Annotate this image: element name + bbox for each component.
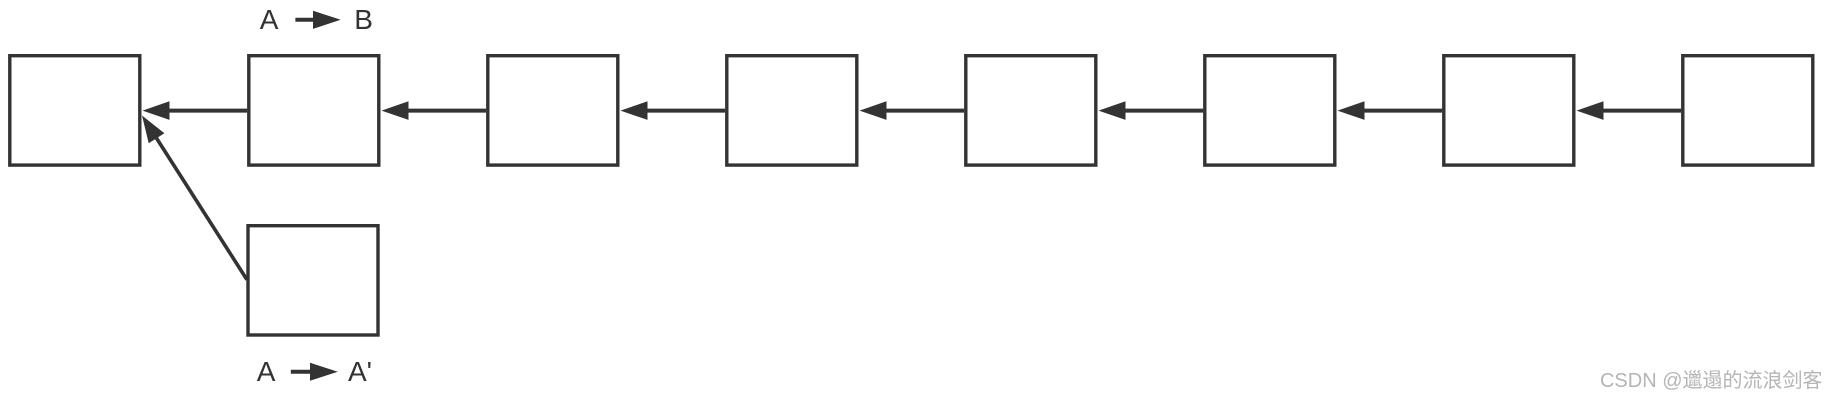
node box 2 (node A) xyxy=(249,56,379,165)
node box 3 xyxy=(488,56,618,165)
node box A' (copied node, lower row) xyxy=(248,226,378,335)
node box 8 (tail) xyxy=(1683,56,1813,165)
node box 5 xyxy=(966,56,1096,165)
arrow box8 to box7 xyxy=(1577,101,1682,120)
svg-text:CSDN @邋遢的流浪剑客: CSDN @邋遢的流浪剑客 xyxy=(1600,369,1823,392)
svg-text:B: B xyxy=(354,4,373,35)
arrow box6 to box5 xyxy=(1099,101,1204,120)
node box 1 (head of linked list) xyxy=(10,56,140,165)
arrow box4 to box3 xyxy=(621,101,726,120)
svg-text:A': A' xyxy=(348,356,372,387)
arrow box2 to box1 xyxy=(143,101,248,120)
arrow box7 to box6 xyxy=(1338,101,1443,120)
diagonal arrow from box A' to box 1 xyxy=(142,116,247,280)
svg-text:A: A xyxy=(260,4,279,35)
arrow box5 to box4 xyxy=(860,101,965,120)
node box 6 xyxy=(1205,56,1335,165)
node box 7 xyxy=(1444,56,1574,165)
svg-text:A: A xyxy=(257,356,276,387)
arrow box3 to box2 xyxy=(382,101,487,120)
node box 4 xyxy=(727,56,857,165)
label A -> B above box 2 xyxy=(260,4,373,35)
label A -> A' below lower box xyxy=(257,356,372,387)
